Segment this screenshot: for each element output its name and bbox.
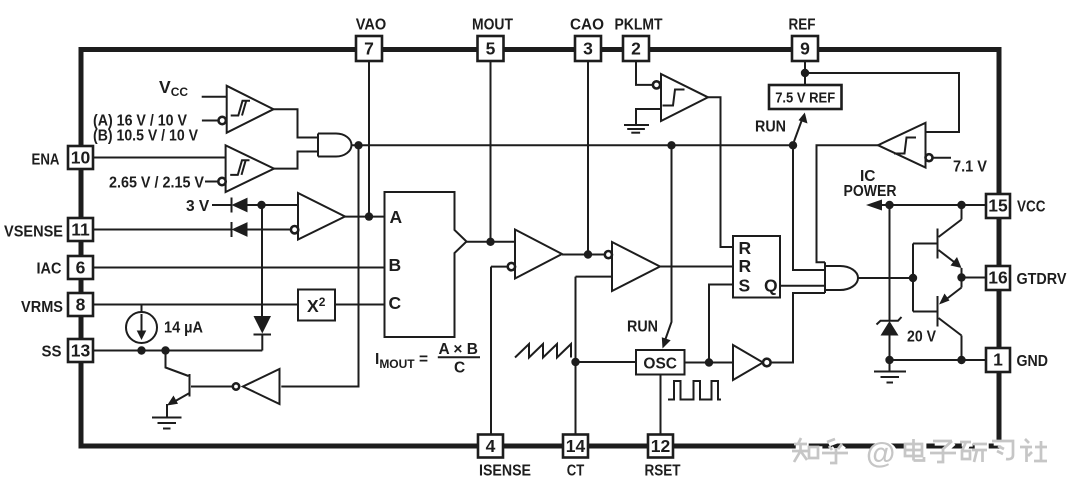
comparator U5 PWM: [605, 242, 660, 291]
pin 16 GTDRV: [986, 266, 1067, 290]
wire U5 output to flip-flop R: [660, 266, 733, 268]
svg-text:B: B: [389, 255, 402, 275]
wire AND1 output down to U9 inverter input: [281, 145, 358, 386]
svg-text:REF: REF: [789, 17, 816, 34]
svg-text:C: C: [389, 293, 402, 313]
svg-text:OSC: OSC: [643, 356, 677, 373]
multiplier M1 A*B/C block: [385, 192, 467, 337]
wire IAC horizontal from pin 6 to multiplier B: [94, 267, 385, 269]
svg-text:A × B: A × B: [439, 341, 478, 358]
wire GTDRV to pin 16: [962, 277, 987, 279]
diode D1 3V clamp: [232, 198, 299, 213]
svg-text:(B) 10.5 V / 10 V: (B) 10.5 V / 10 V: [93, 128, 199, 145]
wire VCC rail with arrow: [866, 200, 986, 211]
svg-text:SS: SS: [42, 344, 62, 361]
wire Q3 base to U9: [191, 386, 233, 388]
wire U8 output to AND2 bottom input: [771, 293, 825, 363]
wire AND2 output to driver bases: [858, 277, 913, 279]
op-amp U3 voltage error amp: [291, 193, 345, 240]
svg-text:6: 6: [76, 258, 86, 278]
transistor Q2 lower driver PNP: [938, 278, 962, 361]
pin 12 RSET: [645, 435, 681, 480]
wire 3V to D1: [212, 204, 232, 206]
waveform sawtooth at CT: [515, 344, 571, 358]
svg-text:16: 16: [988, 268, 1008, 288]
ground symbol at GND rail: [874, 360, 906, 383]
and gate AND2 output driver: [825, 262, 858, 293]
svg-text:13: 13: [71, 341, 91, 361]
svg-text:GTDRV: GTDRV: [1017, 271, 1068, 288]
wire U3 output to multiplier A: [345, 216, 385, 218]
svg-text:PKLMT: PKLMT: [615, 17, 663, 34]
oscillator OSC1: [636, 350, 685, 375]
svg-text:RSET: RSET: [645, 463, 681, 480]
svg-text:4: 4: [486, 436, 496, 456]
node dot GND at Q2 collector: [957, 356, 965, 364]
waveform clock pulses under OSC: [668, 381, 721, 400]
svg-text:C: C: [454, 360, 465, 377]
block REF1 7.5 V REF: [769, 85, 842, 109]
svg-text:2.65 V / 2.15 V: 2.65 V / 2.15 V: [109, 175, 205, 192]
svg-text:7.5 V REF: 7.5 V REF: [775, 90, 835, 107]
node dot SS at current source: [137, 346, 145, 354]
svg-text:A: A: [390, 207, 403, 227]
pin 7 VAO: [356, 17, 387, 62]
node dot RUN to OSC branch: [667, 141, 675, 149]
pin 8 VRMS: [21, 293, 93, 316]
svg-text:R: R: [739, 256, 752, 276]
wire VAO vertical from pin 7: [368, 61, 370, 217]
svg-text:VSENSE: VSENSE: [4, 224, 63, 241]
switch SW1 RUN enable of reference: [794, 113, 808, 142]
svg-text:11: 11: [71, 220, 90, 240]
svg-text:20 V: 20 V: [907, 329, 937, 346]
pin 2 PKLMT: [615, 17, 663, 62]
wire GND rail: [890, 359, 987, 361]
transistor Q3 SS discharge: [166, 351, 190, 418]
pin 3 CAO: [570, 17, 604, 62]
pin 14 CT: [563, 435, 588, 480]
svg-text:8: 8: [76, 295, 86, 315]
svg-text:VRMS: VRMS: [21, 299, 63, 316]
svg-text:14 µA: 14 µA: [164, 320, 203, 337]
svg-text:@: @: [866, 437, 895, 470]
IC boundary box: [81, 50, 999, 447]
wire multiplier output to U4: [467, 241, 516, 243]
node dot SS at Q3: [161, 346, 169, 354]
wire U7 output to AND2: [817, 145, 879, 262]
wire CT to OSC: [576, 361, 637, 363]
wire pin 9 down to 7.5V REF box: [804, 61, 806, 85]
svg-text:GND: GND: [1017, 353, 1049, 370]
wire REF to U7 input: [805, 73, 959, 132]
svg-text:ENA: ENA: [32, 152, 60, 169]
wire base bus vertical: [912, 244, 914, 312]
node dot REF junction: [801, 69, 809, 77]
svg-text:VAO: VAO: [356, 17, 387, 34]
comparator U7 reference good 7.1V: [878, 123, 951, 168]
pin 11 VSENSE: [4, 218, 93, 241]
svg-text:POWER: POWER: [844, 183, 897, 200]
comparator U6 PKLMT: [653, 74, 708, 121]
svg-text:9: 9: [800, 39, 810, 59]
svg-text:7: 7: [364, 39, 374, 59]
wire MOUT vertical from pin 5: [490, 61, 492, 242]
svg-text:2: 2: [631, 39, 641, 59]
wire CAO vertical from pin 3: [587, 61, 589, 255]
wire RSET vertical from pin 12 to OSC: [660, 375, 662, 435]
wire SS horizontal from pin 13: [94, 350, 263, 352]
svg-text:S: S: [739, 276, 751, 296]
svg-text:3 V: 3 V: [186, 198, 210, 215]
pin 6 IAC: [37, 256, 94, 279]
svg-text:15: 15: [988, 196, 1008, 216]
svg-text:1: 1: [993, 350, 1003, 370]
diode D3 SS clamp vertical: [254, 316, 272, 351]
pin 13 SS: [42, 339, 94, 362]
pin 9 REF: [789, 17, 819, 62]
svg-text:MOUT: MOUT: [472, 17, 513, 34]
svg-text:12: 12: [651, 436, 671, 456]
wire VSENSE horizontal from pin 11 to D2: [94, 229, 232, 231]
svg-text:14: 14: [566, 436, 586, 456]
node dot RUN at switch: [789, 141, 797, 149]
inverter U8 after OSC: [733, 345, 771, 380]
wire RUN main horizontal (enable bus): [352, 144, 794, 146]
node dot GTDRV: [957, 273, 965, 281]
svg-text:ISENSE: ISENSE: [479, 463, 531, 480]
wire U6 output to flip-flop R top: [708, 97, 733, 247]
node dot CT at OSC: [571, 358, 579, 366]
svg-text:Q: Q: [764, 276, 778, 296]
node dot VCC at Q1 collector: [957, 201, 965, 209]
node dot VAO at A input: [365, 212, 373, 220]
squarer X2 block: [298, 290, 335, 321]
wire CT vertical from pin 14: [575, 277, 577, 435]
wire from 3V node down to D3: [261, 205, 263, 316]
svg-text:5: 5: [486, 39, 496, 59]
pin 15 VCC: [986, 194, 1046, 218]
label formula IMOUT = A x B / C: [375, 341, 480, 377]
wire RUN to AND2 second input: [793, 145, 825, 270]
pin 1 GND: [986, 348, 1048, 372]
zener Z1 20V clamp: [877, 205, 902, 360]
wire ISENSE vertical from pin 4: [490, 267, 492, 435]
diode D2 VSENSE: [232, 222, 291, 237]
ground symbol at U6 input: [624, 109, 661, 133]
wire U2 output to AND1: [274, 152, 318, 169]
inverter U9 SS enable: [233, 369, 280, 404]
wire ENA horizontal from pin 10 to U2: [94, 157, 227, 159]
comparator U2 ENA schmitt: [205, 145, 274, 192]
svg-text:VCC: VCC: [1017, 199, 1046, 216]
transistor Q1 upper driver NPN: [938, 205, 962, 278]
wire flip-flop Q to AND2: [780, 285, 825, 287]
wire OSC output to inverter and S: [685, 362, 734, 364]
op-amp U4 current amp: [508, 230, 562, 279]
pin 10 ENA: [32, 146, 94, 169]
flip-flop FF1 RS latch: [733, 236, 780, 298]
node dot OSC output: [705, 358, 713, 366]
ground symbol at Q3 emitter: [152, 418, 182, 429]
pin 5 MOUT: [472, 17, 513, 62]
wire U1 output to AND1: [274, 109, 319, 137]
node dot AND1 output: [354, 141, 362, 149]
svg-text:RUN: RUN: [755, 119, 786, 136]
node dot GND at zener: [885, 356, 893, 364]
wire RUN down to OSC with arrow: [662, 145, 672, 348]
wire pin 2 to U6 input: [636, 61, 653, 85]
node dot 3V junction: [257, 201, 265, 209]
wire OSC to flip-flop S: [709, 285, 733, 363]
wire VRMS horizontal pin 8 to X2 and X2 to multiplier C: [94, 304, 299, 306]
svg-text:IAC: IAC: [37, 261, 62, 278]
pin 4 ISENSE: [478, 435, 531, 480]
svg-text:RUN: RUN: [627, 319, 658, 336]
node dot MOUT at U4 input: [486, 238, 494, 246]
wire U4 output to U5: [562, 254, 605, 256]
svg-text:3: 3: [583, 39, 593, 59]
svg-text:CAO: CAO: [570, 17, 604, 34]
node dot base drive: [909, 274, 917, 282]
svg-text:CT: CT: [567, 463, 585, 480]
svg-text:7.1 V: 7.1 V: [953, 159, 988, 176]
comparator U1 VCC UVLO schmitt: [202, 86, 274, 133]
and gate AND1 enable: [318, 134, 352, 157]
watermark zhihu gray: [792, 438, 1047, 463]
watermark white emboss: [794, 440, 1049, 465]
node dot VCC at zener: [885, 201, 893, 209]
svg-text:10: 10: [71, 148, 91, 168]
current source I1 14uA: [126, 305, 157, 343]
svg-text:R: R: [739, 238, 752, 258]
node dot CAO at U5 input: [584, 250, 592, 258]
